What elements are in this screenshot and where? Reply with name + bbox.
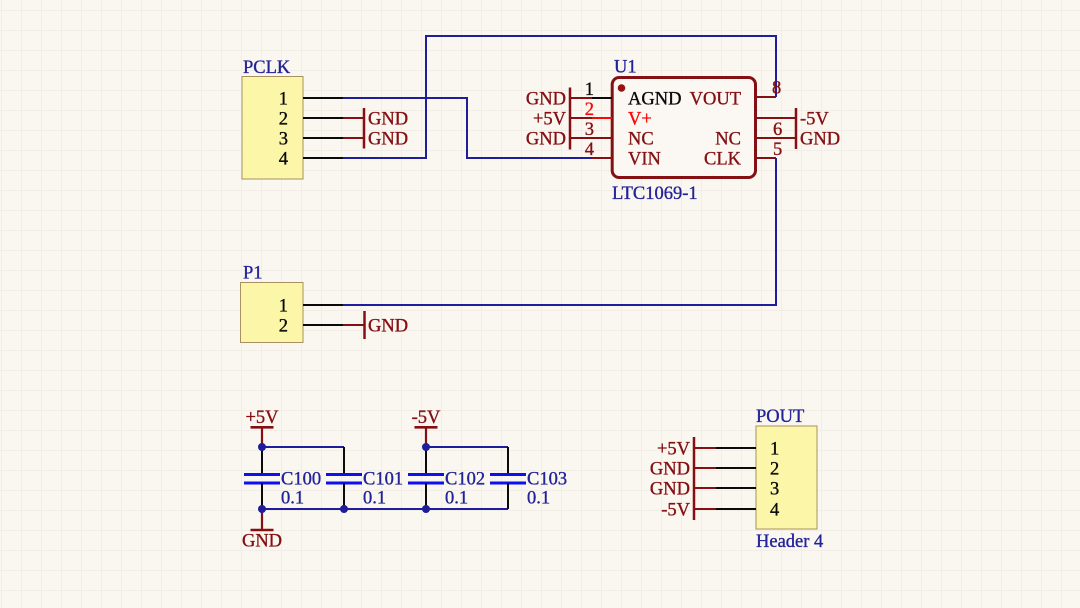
svg-text:-5V: -5V <box>412 408 441 428</box>
header PCLK box <box>242 58 303 179</box>
svg-text:GND: GND <box>242 532 282 552</box>
svg-text:0.1: 0.1 <box>363 489 386 509</box>
P1 pin 1 <box>279 296 343 316</box>
svg-text:POUT: POUT <box>756 407 804 427</box>
+5V power port at POUT pin 1 <box>657 439 716 459</box>
svg-text:2: 2 <box>770 459 779 479</box>
svg-text:2: 2 <box>279 316 288 336</box>
GND power port at U1 pin 6 <box>776 129 840 149</box>
U1 pin 8 VOUT <box>690 79 782 110</box>
+5V power port above C100 <box>245 408 279 447</box>
capacitor C102 <box>408 447 485 509</box>
svg-text:NC: NC <box>628 129 654 149</box>
svg-text:C101: C101 <box>363 470 403 490</box>
U1 pin 1 AGND <box>585 80 682 109</box>
svg-text:PCLK: PCLK <box>243 58 291 78</box>
shared port bar right of U1 <box>795 108 798 149</box>
wire +5V rail top <box>262 446 344 448</box>
svg-text:0.1: 0.1 <box>281 489 304 509</box>
svg-text:GND: GND <box>800 129 840 149</box>
P1 pin 2 <box>279 316 343 336</box>
+5V power port at U1 pin 2 <box>533 109 592 129</box>
U1 pin 6 NC <box>715 120 782 149</box>
svg-text:GND: GND <box>368 129 408 149</box>
junction node GND/C100 bottom <box>258 505 266 513</box>
U1 pin 3 NC <box>585 120 654 149</box>
capacitor C103 <box>490 447 567 509</box>
POUT pin 2 <box>716 459 779 479</box>
U1 pin 2 V+ <box>585 100 652 129</box>
svg-text:8: 8 <box>772 79 781 99</box>
svg-text:GND: GND <box>650 479 690 499</box>
PCLK pin 2 <box>279 109 343 129</box>
header POUT box <box>756 407 823 552</box>
wire ground rail bottom <box>262 508 508 510</box>
svg-text:CLK: CLK <box>704 149 742 169</box>
shared port bar left of U1 <box>569 88 572 150</box>
svg-text:NC: NC <box>715 129 741 149</box>
svg-text:Header 4: Header 4 <box>756 532 823 552</box>
GND power port at PCLK pin 2 <box>343 108 408 129</box>
wire net PCLK pin1 to U1 VIN <box>343 98 592 158</box>
U1 pin 4 VIN <box>585 140 661 169</box>
svg-text:0.1: 0.1 <box>527 489 550 509</box>
svg-text:4: 4 <box>279 149 288 169</box>
svg-text:P1: P1 <box>243 264 263 284</box>
svg-text:-5V: -5V <box>661 500 690 520</box>
svg-text:U1: U1 <box>614 58 637 78</box>
GND power port at U1 pin 3 <box>526 129 592 149</box>
svg-text:+5V: +5V <box>657 439 691 459</box>
svg-text:C100: C100 <box>281 470 321 490</box>
wire net U1 pin5 CLK to P1 pin1 <box>343 158 776 305</box>
header P1 box <box>241 264 304 343</box>
-5V power port above C102 <box>412 408 441 447</box>
GND power port at P1 pin 2 <box>343 311 408 339</box>
U1 pin-1 marker dot <box>618 84 626 92</box>
junction node +5V/C100 <box>258 443 266 451</box>
svg-text:4: 4 <box>585 140 594 160</box>
-5V power port at U1 pin 7 <box>776 109 829 129</box>
svg-text:GND: GND <box>368 316 408 336</box>
U1 pin 7 <box>756 117 777 119</box>
PCLK pin 3 <box>279 129 343 149</box>
GND power port below C100 <box>242 509 282 552</box>
PCLK pin 4 <box>279 149 343 169</box>
svg-text:VOUT: VOUT <box>690 89 741 109</box>
svg-text:+5V: +5V <box>533 109 567 129</box>
svg-text:5: 5 <box>773 140 782 160</box>
svg-text:1: 1 <box>279 296 288 316</box>
svg-text:VIN: VIN <box>628 149 661 169</box>
svg-text:3: 3 <box>279 129 288 149</box>
GND power port at PCLK pin 3 <box>343 128 408 149</box>
wire -5V rail top <box>426 446 508 448</box>
POUT pin 4 <box>716 500 779 520</box>
capacitor C101 <box>326 447 403 509</box>
svg-text:GND: GND <box>650 459 690 479</box>
svg-text:AGND: AGND <box>628 89 681 109</box>
shared port bar left of POUT <box>693 437 696 520</box>
-5V power port at POUT pin 4 <box>661 500 716 520</box>
svg-text:2: 2 <box>279 109 288 129</box>
op-amp/filter IC U1 body <box>612 58 756 205</box>
POUT pin 3 <box>716 479 779 499</box>
junction node C101 bottom <box>340 505 348 513</box>
GND power port at POUT pin 2 <box>650 459 716 479</box>
svg-text:1: 1 <box>279 89 288 109</box>
GND power port at U1 pin 1 <box>526 89 592 109</box>
wire net PCLK pin4 to U1 pin8 <box>343 36 776 158</box>
svg-text:C102: C102 <box>445 470 485 490</box>
svg-text:3: 3 <box>770 479 779 499</box>
junction node -5V/C102 <box>422 443 430 451</box>
svg-text:GND: GND <box>368 109 408 129</box>
svg-text:GND: GND <box>526 89 566 109</box>
GND power port at POUT pin 3 <box>650 479 716 499</box>
svg-text:4: 4 <box>770 500 779 520</box>
U1 pin 5 CLK <box>704 140 782 169</box>
POUT pin 1 <box>716 439 779 459</box>
svg-text:0.1: 0.1 <box>445 489 468 509</box>
svg-text:1: 1 <box>770 439 779 459</box>
svg-text:C103: C103 <box>527 470 567 490</box>
PCLK pin 1 <box>279 89 343 109</box>
junction node C102 bottom <box>422 505 430 513</box>
svg-text:-5V: -5V <box>800 109 829 129</box>
capacitor C100 <box>244 447 321 509</box>
svg-text:+5V: +5V <box>245 408 279 428</box>
svg-text:GND: GND <box>526 129 566 149</box>
svg-text:LTC1069-1: LTC1069-1 <box>612 184 698 204</box>
svg-text:V+: V+ <box>628 109 652 129</box>
